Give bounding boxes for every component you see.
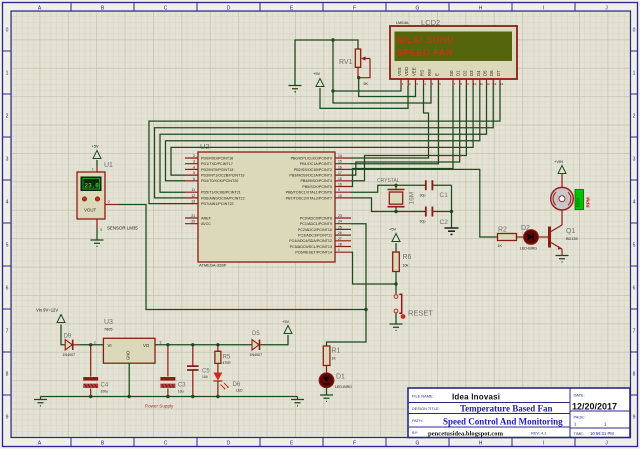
junction dot sensor net	[364, 308, 367, 311]
svg-text:D5: D5	[252, 331, 260, 337]
svg-text:27: 27	[338, 237, 342, 241]
wire LCD D2 to PB4	[351, 86, 466, 181]
junction dot VSS ground	[331, 89, 334, 92]
svg-text:26: 26	[338, 231, 342, 235]
svg-text:24: 24	[338, 220, 342, 224]
svg-text:16: 16	[338, 165, 342, 169]
wire LCD D5 to PD5	[160, 86, 487, 192]
svg-text:5: 5	[193, 171, 195, 175]
svg-text:30p: 30p	[420, 194, 426, 198]
LED D1 LED-BIRG	[319, 373, 352, 395]
ground symbol left	[34, 400, 47, 406]
svg-text:PC6/RESET/PCINT14: PC6/RESET/PCINT14	[295, 251, 332, 255]
svg-text:0: 0	[633, 28, 636, 34]
svg-text:VO: VO	[143, 343, 150, 348]
svg-text:D7: D7	[496, 70, 501, 76]
svg-text:U1: U1	[104, 162, 113, 169]
svg-text:3: 3	[160, 341, 162, 345]
svg-text:AVCC: AVCC	[201, 222, 211, 226]
svg-text:PC4/ADC4/SDA/PCINT12: PC4/ADC4/SDA/PCINT12	[289, 239, 332, 243]
svg-text:PD6/AIN0/OC0A/PCINT22: PD6/AIN0/OC0A/PCINT22	[201, 196, 245, 200]
svg-text:Idea Inovasi: Idea Inovasi	[452, 393, 500, 402]
power +5V output	[282, 319, 292, 334]
voltage regulator U3 7805	[103, 319, 155, 397]
wire LCD D4 to PD4	[166, 86, 480, 181]
wire sensor VOUT to ADC1	[119, 205, 366, 310]
push button RESET	[394, 294, 433, 324]
wire ground rail	[41, 397, 298, 400]
svg-text:U2: U2	[200, 142, 210, 151]
junction dot RV1 ground	[331, 38, 334, 41]
svg-text:D5: D5	[483, 70, 488, 76]
wire PC6 RESET to R6	[351, 252, 396, 284]
temperature sensor U1 LM35	[77, 162, 138, 240]
svg-text:D6: D6	[233, 382, 241, 388]
svg-text:SPEED FAN: SPEED FAN	[397, 48, 454, 58]
svg-text:C3: C3	[178, 383, 186, 389]
ground symbol near RV1	[289, 86, 302, 92]
svg-text:PC5/ADC5/SCL/PCINT13: PC5/ADC5/SCL/PCINT13	[290, 245, 332, 249]
LED D6	[213, 373, 243, 397]
svg-text:20: 20	[191, 220, 195, 224]
svg-text:PD3/INT1/OC2B/PCINT19: PD3/INT1/OC2B/PCINT19	[201, 174, 244, 178]
svg-text:R2: R2	[498, 227, 507, 234]
svg-text:21: 21	[191, 214, 195, 218]
wire VEE to RV1 wiper	[359, 78, 416, 97]
svg-text:4: 4	[6, 200, 9, 206]
svg-text:REV: 4.1: REV: 4.1	[531, 431, 546, 436]
power +5V for sensor U1	[92, 144, 102, 167]
svg-text:VOUT: VOUT	[84, 208, 97, 213]
wire LCD D1 to PB3	[351, 86, 460, 175]
fan RPM readout	[575, 190, 591, 210]
LCD display LCD2 LM016L	[390, 18, 517, 86]
svg-text:C1: C1	[440, 192, 449, 199]
svg-text:PB1/OC1A/PCINT1: PB1/OC1A/PCINT1	[300, 162, 332, 166]
svg-text:14: 14	[338, 154, 342, 158]
capacitor C1 30p	[420, 180, 449, 199]
junction dot C4 top	[89, 343, 92, 346]
svg-text:13: 13	[191, 200, 195, 204]
resistor R6 10k	[393, 252, 412, 294]
svg-text:10: 10	[473, 82, 477, 86]
svg-text:D4: D4	[476, 70, 481, 76]
svg-text:3: 3	[6, 157, 9, 163]
svg-text:5K: 5K	[364, 82, 369, 86]
transistor Q1 BD135	[548, 225, 578, 256]
svg-text:0000: 0000	[578, 197, 582, 208]
svg-text:11: 11	[480, 82, 483, 86]
svg-text:1: 1	[94, 341, 96, 345]
svg-text:12: 12	[486, 82, 490, 86]
ground symbol right	[291, 400, 304, 406]
svg-text:C2: C2	[440, 219, 449, 226]
wire LCD D7 to PD7	[149, 86, 500, 204]
label Power Supply	[145, 404, 174, 409]
svg-text:NILAI SUHU: NILAI SUHU	[397, 35, 455, 45]
ground symbol crystal	[445, 228, 459, 234]
svg-text:H: H	[479, 440, 483, 446]
svg-text:2: 2	[6, 114, 9, 120]
svg-text:PC2/ADC2/PCINT10: PC2/ADC2/PCINT10	[298, 228, 332, 232]
wire C1 C2 to ground	[451, 185, 453, 228]
svg-text:PB7/TOSC2/XTAL2/PCINT7: PB7/TOSC2/XTAL2/PCINT7	[286, 196, 332, 200]
svg-text:PD7/AIN1/PCINT23: PD7/AIN1/PCINT23	[201, 202, 234, 206]
svg-text:1: 1	[633, 71, 636, 77]
svg-text:8: 8	[633, 372, 636, 378]
wire PB7 to crystal bottom rail	[351, 198, 452, 212]
svg-text:16M: 16M	[409, 192, 416, 205]
svg-text:D1: D1	[336, 374, 345, 381]
svg-text:DESIGN TITLE:: DESIGN TITLE:	[412, 406, 440, 411]
svg-text:9: 9	[633, 415, 636, 421]
ground for Q1 emitter	[556, 256, 569, 262]
capacitor C5 104	[187, 345, 210, 397]
svg-text:PC0/ADC0/PCINT8: PC0/ADC0/PCINT8	[300, 216, 332, 220]
ground for RESET button	[390, 324, 403, 330]
svg-text:13: 13	[493, 82, 497, 86]
svg-text:6: 6	[193, 177, 195, 181]
svg-text:10k: 10k	[403, 264, 409, 268]
wire LCD D3 to PD3	[171, 86, 473, 175]
svg-text:1N4007: 1N4007	[63, 353, 76, 357]
svg-text:+5V: +5V	[389, 227, 397, 232]
svg-text:17: 17	[338, 171, 342, 175]
svg-text:6: 6	[633, 286, 636, 292]
svg-text:10u: 10u	[178, 390, 184, 394]
svg-text:5: 5	[6, 243, 9, 249]
svg-text:1: 1	[338, 248, 340, 252]
svg-text:12: 12	[191, 194, 195, 198]
power +5V to VDD	[313, 71, 408, 108]
power input Vin 9V-12V	[36, 308, 65, 345]
junction dots ground rail	[89, 395, 220, 398]
diode D9 1N4007	[63, 334, 80, 358]
svg-text:PD1/TXD/PCINT17: PD1/TXD/PCINT17	[201, 162, 233, 166]
ground for LED D1	[320, 395, 333, 401]
svg-text:Temperature Based Fan: Temperature Based Fan	[460, 404, 553, 414]
svg-text:+5V: +5V	[313, 71, 321, 76]
junction dot C3 top	[166, 343, 169, 346]
svg-text:Power Supply: Power Supply	[145, 404, 174, 409]
svg-text:6: 6	[6, 286, 9, 292]
svg-text:7805: 7805	[104, 328, 112, 332]
svg-text:RV1: RV1	[339, 59, 353, 66]
resistor R5 470R	[215, 345, 231, 373]
svg-text:FILE NAME:: FILE NAME:	[412, 394, 434, 399]
svg-text:1K: 1K	[332, 357, 337, 361]
svg-text:3: 3	[193, 160, 195, 164]
svg-text:1N4007: 1N4007	[250, 353, 263, 357]
svg-text:PAGE:: PAGE:	[574, 415, 586, 420]
svg-text:+VIN: +VIN	[554, 159, 563, 164]
junction dot crystal top	[394, 184, 397, 187]
svg-text:PD0/RXD/PCINT16: PD0/RXD/PCINT16	[201, 156, 233, 160]
svg-text:G: G	[416, 5, 420, 11]
svg-text:VSS: VSS	[397, 67, 402, 76]
microcontroller U2 ATMEGA-328P	[185, 142, 351, 268]
resistor R2 1K	[498, 227, 524, 249]
svg-text:470R: 470R	[223, 361, 232, 365]
svg-text:C5: C5	[202, 369, 210, 375]
wire PB6 to crystal top rail	[351, 185, 452, 192]
junction dot R5 top	[216, 343, 219, 346]
svg-text:R6: R6	[403, 254, 412, 261]
svg-text:4: 4	[193, 165, 195, 169]
svg-text:U3: U3	[104, 319, 113, 326]
svg-text:28: 28	[338, 243, 342, 247]
svg-text:D3: D3	[469, 70, 474, 76]
potentiometer RV1 5K	[339, 49, 370, 86]
power +VIN for fan motor	[554, 159, 566, 187]
svg-text:PB0/ICP1/CLKO/PCINT0: PB0/ICP1/CLKO/PCINT0	[291, 156, 332, 160]
junction dot C5 top	[191, 343, 194, 346]
svg-text:PB4/MISO/PCINT4: PB4/MISO/PCINT4	[300, 179, 332, 183]
svg-text:PD2/INT0/PCINT18: PD2/INT0/PCINT18	[201, 168, 233, 172]
svg-text:9: 9	[338, 188, 340, 192]
resistor R1 1K	[323, 346, 340, 373]
svg-text:2: 2	[633, 114, 636, 120]
wire LCD E to PB1	[351, 86, 439, 164]
svg-text:7: 7	[633, 329, 636, 335]
svg-text:VDD: VDD	[404, 67, 409, 76]
fan motor	[551, 187, 574, 210]
svg-text:Speed Control And Monitoring: Speed Control And Monitoring	[443, 417, 563, 427]
svg-text:PB3/MOSI/OC2A/PCINT3: PB3/MOSI/OC2A/PCINT3	[289, 174, 332, 178]
svg-text:LED-BIRG: LED-BIRG	[520, 247, 537, 251]
diode D5 1N4007	[250, 331, 263, 357]
svg-text:C4: C4	[101, 383, 109, 389]
svg-text:18: 18	[338, 177, 342, 181]
wire D5 to +5V	[260, 335, 288, 345]
svg-text:H: H	[479, 5, 483, 11]
svg-text:PB2/SS/OC1B/PCINT2: PB2/SS/OC1B/PCINT2	[294, 168, 332, 172]
svg-text:PC3/ADC3/PCINT11: PC3/ADC3/PCINT11	[298, 234, 332, 238]
svg-text:7: 7	[6, 329, 9, 335]
svg-text:8: 8	[6, 372, 9, 378]
svg-text:AREF: AREF	[201, 216, 212, 220]
svg-text:BY:: BY:	[412, 430, 418, 435]
LED D2 LED-BIRG	[520, 225, 548, 251]
svg-text:2: 2	[108, 200, 110, 204]
svg-text:DATE:: DATE:	[574, 393, 585, 398]
power +5V for R6	[389, 227, 400, 253]
svg-text:BD135: BD135	[566, 237, 578, 241]
svg-text:LED: LED	[236, 389, 243, 393]
svg-text:GND: GND	[126, 351, 131, 360]
svg-text:104: 104	[202, 375, 208, 379]
capacitor C3 10u	[160, 345, 186, 397]
capacitor C2 30p	[420, 207, 449, 227]
svg-text:10: 10	[338, 194, 342, 198]
svg-text:VEE: VEE	[412, 67, 417, 76]
svg-text:ATMEGA-328P: ATMEGA-328P	[199, 263, 227, 268]
svg-text:PD5/T1/OC0B/PCINT21: PD5/T1/OC0B/PCINT21	[201, 191, 241, 195]
svg-text:SENSOR LM35: SENSOR LM35	[107, 226, 138, 231]
svg-text:1K: 1K	[498, 244, 503, 248]
svg-text:E: E	[435, 73, 440, 76]
wire PC1 to R1	[327, 224, 367, 346]
svg-text:RS: RS	[420, 70, 425, 76]
svg-text:I: I	[543, 5, 544, 11]
junction dot C2 ground	[450, 210, 453, 213]
svg-text:VI: VI	[108, 343, 112, 348]
junction dot RV1 wiper	[357, 76, 360, 79]
svg-text:CRYSTAL: CRYSTAL	[377, 178, 400, 184]
svg-text:I: I	[543, 440, 544, 446]
svg-text:RESET: RESET	[408, 309, 433, 318]
svg-text:D1: D1	[456, 70, 461, 76]
svg-text:5: 5	[633, 243, 636, 249]
svg-text:15: 15	[338, 160, 342, 164]
svg-text:1: 1	[6, 71, 9, 77]
wire LCD D6 to PD6	[155, 86, 494, 198]
svg-text:F: F	[353, 440, 356, 446]
svg-text:23: 23	[338, 214, 342, 218]
svg-text:PB6/TOSC1/XTAL1/PCINT6: PB6/TOSC1/XTAL1/PCINT6	[286, 191, 332, 195]
svg-text:+5V: +5V	[282, 319, 290, 324]
wire motor to Q1 collector	[561, 210, 563, 225]
svg-text:RW: RW	[427, 68, 432, 76]
svg-text:4: 4	[633, 200, 636, 206]
svg-text:3: 3	[100, 228, 102, 232]
ground for sensor U1	[91, 240, 104, 246]
svg-text:Vin 9V~12V: Vin 9V~12V	[36, 308, 58, 313]
wire D9 to U3 VI	[80, 341, 104, 345]
svg-text:D0: D0	[449, 70, 454, 76]
svg-text:19: 19	[338, 183, 342, 187]
svg-text:G: G	[416, 440, 420, 446]
wire LCD RS to PB0	[351, 86, 429, 158]
wire U3 VO to rail	[155, 341, 252, 345]
title block	[408, 388, 630, 438]
svg-text:Q1: Q1	[566, 228, 575, 235]
capacitor C4 100u	[83, 345, 109, 397]
svg-text:2: 2	[193, 154, 195, 158]
wire RV1 top to ground rail	[295, 40, 431, 103]
svg-text:PC1/ADC1/PCINT9: PC1/ADC1/PCINT9	[300, 222, 332, 226]
svg-text:R1: R1	[332, 348, 341, 355]
svg-text:LED-BIRG: LED-BIRG	[335, 385, 352, 389]
svg-text:14: 14	[500, 82, 504, 86]
svg-text:PATH:: PATH:	[412, 418, 423, 423]
svg-text:+5V: +5V	[92, 144, 100, 149]
wire LCD D0 to PB5	[351, 86, 453, 187]
svg-text:3: 3	[633, 157, 636, 163]
svg-text:PB5/SCK/PCINT5: PB5/SCK/PCINT5	[302, 185, 332, 189]
svg-text:PD4/T0/XCK/PCINT20: PD4/T0/XCK/PCINT20	[201, 179, 238, 183]
svg-text:TIME:: TIME:	[574, 431, 584, 436]
svg-text:D2: D2	[462, 70, 467, 76]
svg-text:RPM: RPM	[586, 197, 591, 207]
svg-text:11: 11	[191, 188, 195, 192]
junction dot reset net	[394, 282, 397, 285]
svg-text:LM016L: LM016L	[396, 21, 409, 25]
svg-text:23.0: 23.0	[85, 182, 100, 189]
wire VSS to ground	[333, 86, 401, 91]
svg-text:D: D	[227, 440, 231, 446]
svg-text:12/20/2017: 12/20/2017	[572, 402, 617, 412]
svg-text:R5: R5	[223, 355, 231, 361]
svg-text:D: D	[227, 5, 231, 11]
svg-text:F: F	[353, 5, 356, 11]
svg-text:1: 1	[92, 168, 94, 172]
wire PB2 PWM to R2	[351, 169, 498, 237]
svg-text:25: 25	[338, 225, 342, 229]
svg-text:100u: 100u	[101, 390, 109, 394]
svg-text:9: 9	[6, 415, 9, 421]
svg-text:pencetusidea.blogspot.com: pencetusidea.blogspot.com	[428, 431, 504, 438]
svg-text:C: C	[164, 5, 168, 11]
svg-text:0: 0	[6, 28, 9, 34]
svg-text:10:56:31 PM: 10:56:31 PM	[590, 431, 614, 436]
crystal X1 16M	[377, 178, 416, 212]
svg-text:C: C	[164, 440, 168, 446]
svg-text:30p: 30p	[420, 220, 426, 224]
svg-text:D6: D6	[489, 70, 494, 76]
junction dot crystal bottom	[394, 210, 397, 213]
